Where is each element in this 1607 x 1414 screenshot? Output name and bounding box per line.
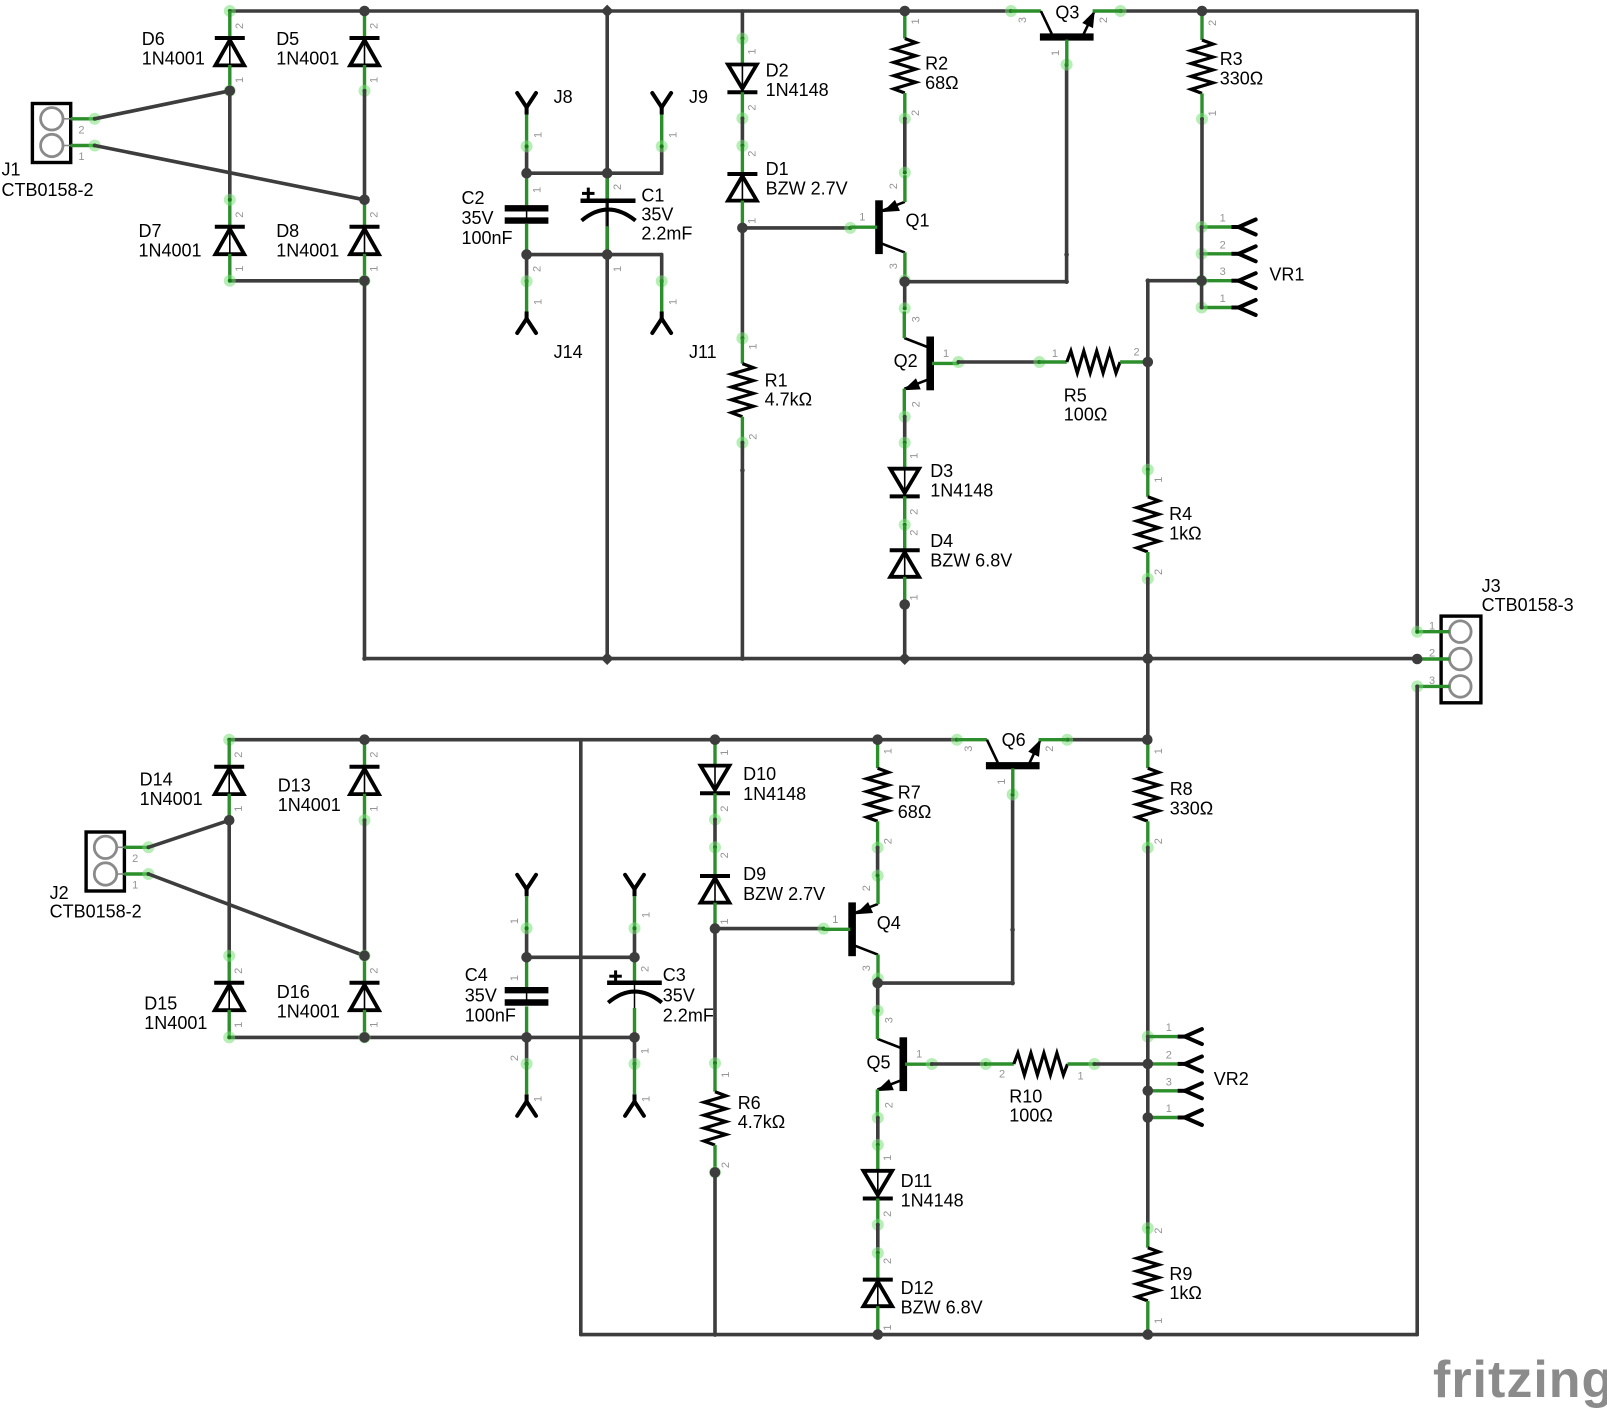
svg-text:2.2mF: 2.2mF (641, 223, 692, 243)
junction bottom rail / D10 (710, 734, 721, 745)
wire fork-a to rail (525, 928, 529, 957)
svg-text:D1: D1 (766, 159, 789, 179)
svg-text:2: 2 (719, 852, 731, 858)
svg-text:R2: R2 (925, 54, 948, 74)
wire VR2 to R9 (1146, 1118, 1150, 1229)
svg-text:2: 2 (746, 104, 758, 110)
label D1 (766, 159, 848, 198)
wire Q2 base to R5 (958, 360, 1039, 364)
svg-text:VR2: VR2 (1214, 1069, 1249, 1089)
node Q4 pin3 (872, 973, 884, 985)
transistor Q5 (877, 1012, 932, 1116)
label VR1 (1269, 264, 1304, 284)
svg-text:D15: D15 (144, 994, 177, 1014)
svg-text:2: 2 (999, 1069, 1005, 1081)
wire cap bottom rail (527, 253, 662, 257)
node fork-b pin (629, 922, 641, 934)
svg-text:35V: 35V (465, 985, 497, 1005)
svg-text:1: 1 (668, 299, 680, 305)
svg-text:R3: R3 (1220, 49, 1243, 69)
wire top rail right segment (1121, 9, 1418, 13)
svg-text:1: 1 (1153, 1318, 1165, 1324)
node wire end at D6 top (224, 5, 236, 17)
pin header J14 (517, 280, 536, 333)
svg-text:1: 1 (832, 914, 838, 926)
node D6 anode (224, 85, 236, 97)
svg-text:1: 1 (233, 806, 245, 812)
svg-text:C4: C4 (465, 965, 488, 985)
svg-text:CTB0158-2: CTB0158-2 (2, 180, 94, 200)
svg-text:1: 1 (533, 132, 545, 138)
node J14 pin (521, 275, 533, 287)
svg-text:J11: J11 (689, 342, 717, 362)
svg-text:100nF: 100nF (465, 1006, 516, 1026)
pin header J9 (652, 93, 671, 146)
svg-text:Q1: Q1 (906, 211, 930, 231)
svg-text:J8: J8 (554, 87, 573, 107)
svg-text:2: 2 (369, 23, 381, 29)
label C4 (465, 965, 516, 1025)
node D5 anode (359, 85, 371, 97)
node Q1 base wire end (844, 222, 856, 234)
node J3 pin3 (1411, 680, 1423, 692)
wire R2 to Q1 pin2 (903, 119, 907, 173)
svg-text:D13: D13 (278, 776, 311, 796)
svg-text:330Ω: 330Ω (1170, 798, 1214, 818)
svg-text:BZW 2.7V: BZW 2.7V (766, 178, 848, 198)
zener diode D9 BZW 2.7V (700, 847, 731, 928)
svg-text:2.2mF: 2.2mF (663, 1006, 714, 1026)
node D2 pin1 (736, 33, 748, 45)
capacitor C3 2.2mF (607, 957, 662, 1054)
svg-text:4.7kΩ: 4.7kΩ (738, 1112, 785, 1132)
svg-text:3: 3 (963, 746, 975, 752)
pin number fork-d (640, 1096, 652, 1102)
svg-text:1N4001: 1N4001 (276, 48, 339, 68)
svg-text:1kΩ: 1kΩ (1169, 523, 1201, 543)
pin number fork-c (533, 1096, 545, 1102)
svg-text:2: 2 (883, 838, 895, 844)
node Q6 pin1 (1007, 789, 1019, 801)
label R4 (1169, 504, 1201, 543)
label R7 (898, 783, 931, 822)
svg-text:2: 2 (719, 806, 731, 812)
wire fork-b to rail (633, 928, 637, 957)
label D6 (142, 29, 205, 68)
svg-text:2: 2 (746, 151, 758, 157)
svg-text:2: 2 (234, 212, 246, 218)
diode D13 1N4001 (350, 740, 381, 820)
diode D3 1N4148 (890, 443, 921, 523)
wire bottom cap top rail (527, 955, 635, 959)
diode D5 1N4001 (350, 11, 381, 91)
label C2 (462, 188, 513, 248)
svg-text:1: 1 (612, 266, 624, 272)
node Q6 pin2 (1061, 734, 1073, 746)
junction mid rail / center vertical (601, 652, 614, 665)
wire mid rail (output common) (365, 657, 1418, 661)
diode D2 1N4148 (727, 39, 758, 119)
node D10 pin2 (709, 814, 721, 826)
svg-text:1: 1 (640, 912, 652, 918)
bend point Q6 wire corner (1010, 981, 1015, 986)
svg-text:1: 1 (640, 1096, 652, 1102)
node Q5 base (926, 1058, 938, 1070)
svg-text:2: 2 (1207, 20, 1219, 26)
wire Q3 pin1 vertical (1065, 65, 1069, 282)
svg-text:35V: 35V (663, 985, 695, 1005)
svg-text:2: 2 (1153, 569, 1165, 575)
node D2 pin2 (736, 112, 748, 124)
transistor Q3 (1011, 11, 1122, 65)
node Q5 pin2 (872, 1112, 884, 1124)
svg-text:R8: R8 (1170, 779, 1193, 799)
node R1 pin1 (736, 332, 748, 344)
resistor R3 330 (1191, 11, 1219, 119)
node wire end Q3 pin2 (1115, 5, 1127, 17)
wire R1 to mid rail (741, 443, 745, 659)
svg-text:1N4001: 1N4001 (278, 795, 341, 815)
resistor R2 68 (894, 11, 922, 119)
svg-text:D8: D8 (276, 221, 299, 241)
wire D14 to D15 (227, 820, 231, 956)
junction Q1 emitter node (899, 276, 910, 287)
svg-text:330Ω: 330Ω (1220, 68, 1264, 88)
wire bottom V+ rail (229, 738, 957, 742)
svg-text:R1: R1 (765, 370, 788, 390)
label J14 (554, 342, 583, 362)
svg-text:2: 2 (882, 1258, 894, 1264)
wire Q4 node to Q6 corner (878, 981, 1013, 985)
label D12 (901, 1278, 983, 1317)
svg-text:2: 2 (909, 530, 921, 536)
label R8 (1170, 779, 1214, 818)
svg-text:D7: D7 (139, 221, 162, 241)
wire J14 drop (525, 255, 529, 282)
label J8 (554, 87, 573, 107)
svg-text:100Ω: 100Ω (1009, 1106, 1053, 1126)
node D15 anode (223, 1031, 235, 1043)
node D3 pin2 / D4 pin2 (899, 519, 911, 531)
node R9 pin2 (1142, 1222, 1154, 1234)
svg-text:2: 2 (909, 509, 921, 515)
wire D5 to D8 (363, 91, 367, 200)
capacitor C2 100nF (505, 173, 549, 272)
svg-text:3: 3 (888, 263, 900, 269)
node R4 pin1 (1142, 464, 1154, 476)
connector J3 CTB0158-3 (1417, 616, 1481, 703)
trimmer VR2 pin1 (1148, 1022, 1202, 1044)
svg-text:2: 2 (720, 1162, 732, 1168)
node R6 pin1 (709, 1057, 721, 1069)
svg-text:1: 1 (234, 77, 246, 83)
trimmer VR2 pin2 (1148, 1049, 1202, 1071)
svg-text:D4: D4 (930, 531, 953, 551)
wire D9 node to R6 (713, 929, 717, 1064)
svg-text:2: 2 (369, 968, 381, 974)
svg-text:CTB0158-2: CTB0158-2 (50, 901, 142, 921)
svg-text:R5: R5 (1064, 385, 1087, 405)
svg-text:1: 1 (883, 748, 895, 754)
resistor R1 4.7k (731, 338, 759, 442)
svg-text:2: 2 (888, 183, 900, 189)
junction mid rail / R4 (1143, 653, 1154, 664)
wire J3 pin3 down right rail (1415, 686, 1419, 1334)
node J8 pin (521, 140, 533, 152)
svg-text:1: 1 (747, 343, 759, 349)
svg-text:2: 2 (509, 1055, 521, 1061)
svg-text:3: 3 (861, 965, 873, 971)
node fork-c pin (521, 1058, 533, 1070)
junction top rail / R2 (900, 6, 911, 17)
label Q4 (877, 913, 901, 933)
junction D16 anode (359, 1032, 370, 1043)
wire J8 to rail (525, 146, 529, 173)
bend point Q3 wire mid (1064, 252, 1069, 257)
svg-text:2: 2 (132, 853, 138, 865)
bend point Q6 wire mid (1010, 927, 1015, 932)
wire bottom common rail (581, 1333, 1417, 1337)
label R5 (1064, 385, 1108, 424)
node R7 pin2 (872, 842, 884, 854)
label D13 (278, 776, 341, 815)
label Q3 (1055, 3, 1079, 23)
junction D14 anode / J2 pin2 (224, 815, 235, 826)
junction D8 cathode / J1 pin1 wire (359, 195, 370, 206)
wire D2 to D1 (741, 118, 745, 145)
node D1 pin2 (736, 140, 748, 152)
label R1 (765, 370, 812, 409)
pin number J9-1 (668, 132, 680, 138)
svg-text:1: 1 (1166, 1022, 1172, 1034)
junction cap rail / C3 (629, 952, 640, 963)
svg-text:J9: J9 (689, 87, 708, 107)
label VR2 (1214, 1069, 1249, 1089)
svg-text:1: 1 (369, 77, 381, 83)
wire R8 to VR2 pin1 (1146, 848, 1150, 1037)
svg-text:3: 3 (1429, 675, 1435, 687)
svg-text:J3: J3 (1482, 576, 1501, 596)
svg-text:BZW 6.8V: BZW 6.8V (901, 1297, 983, 1317)
svg-text:1: 1 (1153, 748, 1165, 754)
svg-text:1N4001: 1N4001 (144, 1013, 207, 1033)
svg-text:68Ω: 68Ω (898, 802, 931, 822)
node Q1 pin2 wire end (899, 167, 911, 179)
svg-text:D16: D16 (277, 982, 310, 1002)
label J3 (1482, 576, 1574, 615)
svg-text:2: 2 (883, 1102, 895, 1108)
resistor R5 100 (1039, 347, 1147, 373)
svg-text:D14: D14 (140, 769, 173, 789)
label J9 (689, 87, 708, 107)
junction bottom rail / D13 (359, 734, 370, 745)
wire R3 to VR1 (1200, 119, 1204, 227)
wire Q6 pin1 vertical (1011, 795, 1015, 984)
svg-text:3: 3 (883, 1017, 895, 1023)
wire D4 to mid rail (903, 605, 907, 659)
svg-text:100nF: 100nF (462, 228, 513, 248)
pin header bottom J-a (517, 875, 536, 928)
svg-text:1: 1 (132, 880, 138, 892)
label J11 (689, 342, 717, 362)
label R3 (1220, 49, 1264, 88)
wire J2 pin1 to D16 node (149, 874, 365, 956)
capacitor C4 100nF (505, 957, 549, 1061)
label D7 (139, 221, 202, 260)
label D15 (144, 994, 207, 1033)
zener diode D4 BZW 6.8V (890, 525, 921, 605)
svg-text:2: 2 (910, 401, 922, 407)
svg-text:Q3: Q3 (1055, 3, 1079, 23)
svg-text:1: 1 (720, 1072, 732, 1078)
wire right rail to J3 pin1 (1415, 11, 1419, 632)
trimmer VR2 pin3 (1148, 1076, 1202, 1098)
junction bottom rail / R8 top (1142, 734, 1153, 745)
wire D11 to D12 (876, 1225, 880, 1253)
wire bottom V+ rail right (1067, 738, 1147, 742)
node R6 pin2 (709, 1166, 721, 1178)
wire R7 to Q4 pin2 (876, 848, 880, 876)
svg-text:4.7kΩ: 4.7kΩ (765, 390, 812, 410)
wire Q1 node to Q2 pin3 (903, 282, 907, 309)
svg-text:R10: R10 (1009, 1086, 1042, 1106)
wire bottom center vertical (579, 740, 583, 1335)
junction bottom rail / R7 (872, 734, 883, 745)
wire Q2 to D3 (903, 417, 907, 443)
label D3 (930, 461, 993, 500)
svg-text:J2: J2 (50, 883, 69, 903)
node D16 cathode (359, 950, 371, 962)
node D13 anode (359, 814, 371, 826)
svg-text:1: 1 (369, 266, 381, 272)
transistor Q1 (850, 175, 905, 279)
transistor Q6 (957, 740, 1068, 794)
svg-text:1: 1 (234, 266, 246, 272)
node D8 anode (359, 275, 371, 287)
node D9 pin2 (709, 841, 721, 853)
node Q1 pin3 (899, 274, 911, 286)
pin number J14-1 (533, 299, 545, 305)
wire R10 to VR2 (1094, 1062, 1147, 1066)
node J11 pin (656, 275, 668, 287)
diode D10 1N4148 (700, 740, 731, 820)
svg-text:1: 1 (859, 212, 865, 224)
connector J2 CTB0158-2 (86, 832, 154, 892)
junction mid rail / J3 pin2 (1412, 654, 1423, 665)
wire VR1 pins vertical (1200, 227, 1204, 308)
svg-text:1: 1 (882, 1324, 894, 1330)
junction VR2 pin3 (1143, 1086, 1154, 1097)
svg-text:J1: J1 (2, 160, 21, 180)
svg-text:3: 3 (1166, 1076, 1172, 1088)
node fork-a pin (521, 922, 533, 934)
svg-text:1: 1 (1050, 50, 1062, 56)
pin number fork-a (509, 918, 521, 924)
wire center vertical V- top half (605, 11, 609, 659)
bend point VR1 wiper corner (1146, 278, 1151, 283)
svg-text:1: 1 (1429, 620, 1435, 632)
wire Q5 to D11 (876, 1118, 880, 1145)
wire VR1 wiper left (1148, 279, 1202, 283)
junction rail / C4 bottom (521, 1032, 532, 1043)
pin header J8 (517, 93, 536, 146)
zener diode D12 BZW 6.8V (863, 1253, 894, 1335)
svg-text:2: 2 (1153, 838, 1165, 844)
label R10 (1009, 1086, 1053, 1125)
svg-text:1N4001: 1N4001 (277, 1002, 340, 1022)
svg-text:1: 1 (1207, 110, 1219, 116)
wire R5 node to R4 (1146, 362, 1150, 470)
wire D1 to R1 (741, 228, 745, 338)
resistor R9 1k (1137, 1228, 1165, 1335)
diode D7 1N4001 (215, 200, 246, 280)
svg-text:35V: 35V (462, 208, 494, 228)
label D9 (743, 864, 825, 904)
svg-text:2: 2 (78, 125, 84, 137)
junction VR1 pin3 wiper (1196, 275, 1207, 286)
node D11 pin2 (872, 1219, 884, 1231)
label Q6 (1002, 730, 1026, 750)
svg-text:D12: D12 (901, 1278, 934, 1298)
diode D16 1N4001 (350, 956, 381, 1036)
svg-text:2: 2 (369, 752, 381, 758)
junction VR2 pin1b (1143, 1112, 1154, 1123)
svg-text:2: 2 (1153, 1228, 1165, 1234)
wire cap top rail (527, 171, 662, 175)
junction top rail / center vertical (601, 5, 614, 18)
pin header J11 (652, 280, 671, 333)
node D11 pin1 (872, 1139, 884, 1151)
label Q1 (906, 211, 930, 231)
svg-text:1: 1 (668, 132, 680, 138)
diode D8 1N4001 (350, 200, 381, 280)
junction VR2 pin2 / R10 (1143, 1059, 1154, 1070)
svg-text:1: 1 (78, 151, 84, 163)
node Q2 pin2 (899, 411, 911, 423)
svg-text:1N4148: 1N4148 (743, 784, 806, 804)
svg-text:1: 1 (1220, 293, 1226, 305)
svg-text:2: 2 (1044, 746, 1056, 752)
svg-text:2: 2 (747, 434, 759, 440)
wire D1 node to Q1 base (742, 226, 850, 230)
trimmer VR1 pin1b (1196, 293, 1256, 315)
resistor R7 68 (867, 740, 895, 848)
svg-text:D6: D6 (142, 29, 165, 49)
label D10 (743, 764, 806, 804)
svg-text:2: 2 (1429, 648, 1435, 660)
pin header bottom J-d (625, 1062, 644, 1115)
label R6 (738, 1093, 785, 1132)
label R2 (925, 54, 958, 93)
wire R4 to mid rail (1146, 579, 1150, 659)
svg-text:fritzing: fritzing (1433, 1351, 1607, 1409)
wire fork-d drop (633, 1037, 637, 1064)
svg-text:1N4148: 1N4148 (930, 480, 993, 500)
svg-text:1: 1 (746, 48, 758, 54)
junction D9 anode / Q4 base (710, 923, 721, 934)
wire D10 to D9 (713, 820, 717, 848)
svg-text:100Ω: 100Ω (1064, 405, 1108, 425)
svg-text:D11: D11 (901, 1171, 933, 1191)
svg-text:1: 1 (996, 779, 1008, 785)
svg-text:1: 1 (509, 975, 521, 981)
svg-text:1N4148: 1N4148 (901, 1190, 964, 1210)
svg-text:2: 2 (532, 266, 544, 272)
label D4 (930, 531, 1012, 570)
svg-text:BZW 2.7V: BZW 2.7V (743, 884, 825, 904)
node D15 cathode (223, 950, 235, 962)
node R1 pin2 (736, 437, 748, 449)
